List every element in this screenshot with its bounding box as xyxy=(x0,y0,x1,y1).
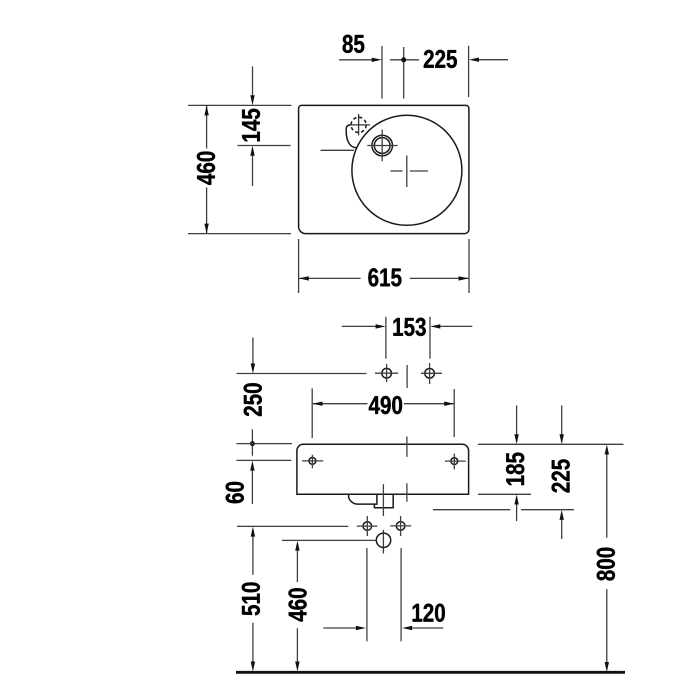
drain outlet circle xyxy=(376,533,390,547)
bowl centre cross xyxy=(391,156,429,188)
faucet fixing hole right xyxy=(425,369,435,379)
drain fixing hole right xyxy=(396,522,405,531)
dimension 250 xyxy=(244,338,262,456)
dimension 460 top view xyxy=(188,105,291,233)
shelf top extension line left xyxy=(236,443,292,445)
faucet hole cross xyxy=(367,130,397,162)
dimension 490 xyxy=(312,388,454,438)
centreline between faucet holes xyxy=(406,365,408,388)
bowl centreline front view xyxy=(406,437,408,502)
floor line xyxy=(236,671,625,674)
basin top-view outline xyxy=(299,105,469,233)
siphon trap outline xyxy=(349,494,377,504)
extension line at faucet holes height xyxy=(237,373,367,375)
faucet hole outer circle xyxy=(372,135,393,156)
wall mounting hole left xyxy=(309,458,316,465)
extension line at drain holes height xyxy=(237,525,348,527)
basin bowl circle xyxy=(352,115,462,225)
dimension 225 top view xyxy=(424,46,508,97)
dimension 225 front view xyxy=(433,406,574,540)
dimension 85 xyxy=(339,35,419,99)
drain fixing hole left xyxy=(363,522,372,531)
overflow spout outline xyxy=(346,125,356,148)
basin front-view outline xyxy=(297,444,469,494)
dimension 153 xyxy=(342,317,473,359)
optional hole dashed circle xyxy=(351,117,366,132)
dimension 60 xyxy=(226,460,292,504)
drain centreline front view xyxy=(382,484,384,553)
dimension 615 xyxy=(299,239,469,293)
drain outlet outline xyxy=(374,494,393,508)
extension line at outlet height xyxy=(282,539,376,541)
dimension 510 xyxy=(242,527,260,672)
dimension 800 xyxy=(597,445,615,673)
leader line to faucet height xyxy=(321,149,355,151)
dimension 460 front view xyxy=(288,541,306,672)
faucet fixing hole left xyxy=(382,368,392,378)
dimension 185 xyxy=(478,406,531,522)
faucet hole inner circle xyxy=(374,138,390,154)
optional hole cross xyxy=(348,114,370,135)
wall mounting hole right xyxy=(451,458,458,465)
shelf top extension line right xyxy=(478,443,624,445)
dimension 145 xyxy=(238,66,291,186)
dimension 120 xyxy=(323,548,444,641)
